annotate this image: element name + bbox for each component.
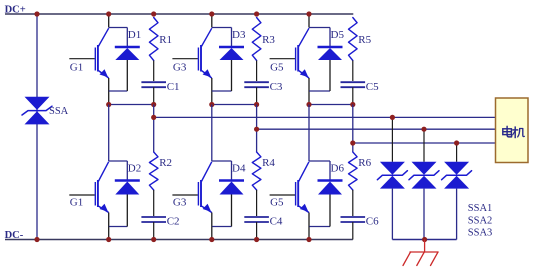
svg-text:D5: D5 (331, 29, 345, 41)
node bottom rail C4 (254, 237, 259, 242)
svg-text:C4: C4 (270, 216, 283, 228)
label D3 (232, 29, 246, 41)
label motor 电机 (503, 126, 525, 138)
label D1 (128, 29, 141, 41)
node top rail leg 1 (106, 11, 111, 16)
svg-text:C6: C6 (366, 216, 379, 228)
wire leg 3 mid vertical (308, 105, 310, 162)
diode D3 (219, 47, 244, 60)
wire collector G1 top (109, 14, 128, 47)
diode D2 (115, 181, 140, 195)
node top rail R3 (254, 11, 259, 16)
capacitor C1 (141, 82, 166, 104)
label C2 (167, 216, 180, 228)
label D2 (128, 163, 141, 175)
label C1 (167, 81, 180, 93)
svg-text:SSA3: SSA3 (468, 228, 493, 239)
wire SSA branch vertical (36, 14, 38, 240)
node phase 3 at IGBT (306, 102, 311, 107)
TVS suppressor SSA2 (409, 162, 439, 189)
transistor IGBT G1 top (69, 28, 108, 78)
svg-text:C5: C5 (366, 81, 379, 93)
wire phase W to motor (353, 142, 496, 144)
wire emitter G3 bottom (212, 195, 232, 240)
svg-text:SSA1: SSA1 (468, 203, 493, 214)
label C4 (270, 216, 283, 228)
wire SSA2 upper lead (423, 129, 425, 162)
label C5 (366, 81, 379, 93)
wire leg 1 mid vertical (108, 105, 110, 162)
svg-text:G1: G1 (70, 196, 83, 208)
node top rail R1 (151, 11, 156, 16)
wire collector G5 bottom (309, 161, 330, 181)
svg-text:SSA2: SSA2 (468, 215, 493, 226)
node bottom rail C2 (151, 237, 156, 242)
label C6 (366, 216, 379, 228)
diode D1 (115, 47, 140, 60)
svg-text:R5: R5 (358, 34, 371, 46)
wire RC branch 1 vertical (153, 105, 155, 153)
node phase 3 at RC (350, 102, 355, 107)
svg-text:SSA: SSA (49, 106, 69, 117)
resistor R3 (252, 18, 261, 82)
diode D6 (318, 181, 343, 195)
wire emitter G5 bottom (309, 195, 330, 240)
wire collector G5 top (309, 14, 330, 47)
node bottom rail leg 1 (106, 237, 111, 242)
wire phase node 2 connector (212, 104, 257, 106)
svg-text:R3: R3 (262, 34, 275, 46)
label SSA2 (468, 215, 493, 226)
svg-text:G3: G3 (173, 196, 187, 208)
wire SSA1 lower lead (391, 189, 393, 240)
capacitor C3 (244, 82, 269, 104)
wire TVS ground bus (392, 239, 456, 241)
resistor R2 (149, 152, 158, 216)
svg-text:C2: C2 (167, 216, 180, 228)
wire RC branch 2 vertical (256, 105, 258, 153)
svg-text:R6: R6 (358, 157, 371, 169)
transistor IGBT G1 bottom (69, 162, 108, 213)
resistor R1 (149, 18, 158, 82)
node SSA1 tap (390, 115, 395, 120)
label R6 (358, 157, 371, 169)
wire SSA2 lower lead (423, 189, 425, 240)
diode D5 (318, 47, 343, 60)
node SSA2 tap (421, 127, 426, 132)
node phase 2 at IGBT (209, 102, 214, 107)
node phase 1 at IGBT (106, 102, 111, 107)
node phase 2 at RC (254, 102, 259, 107)
resistor R4 (252, 152, 261, 216)
node top rail leg 2 (209, 11, 214, 16)
TVS suppressor SSA3 (442, 162, 472, 189)
svg-text:R1: R1 (159, 34, 172, 46)
wire SSA1 upper lead (391, 117, 393, 161)
label R3 (262, 34, 275, 46)
wire emitter G1 top (109, 60, 128, 105)
node phase V start (254, 127, 259, 132)
transistor IGBT G5 bottom (270, 162, 309, 213)
label R1 (159, 34, 172, 46)
label D4 (232, 163, 246, 175)
resistor R6 (349, 152, 358, 216)
transistor IGBT G5 top (270, 28, 309, 78)
svg-text:D3: D3 (232, 29, 246, 41)
label SSA (49, 106, 69, 117)
motor block 电机 box (496, 98, 529, 163)
wire RC branch 3 vertical (352, 105, 354, 153)
label D5 (331, 29, 345, 41)
svg-text:DC+: DC+ (5, 5, 26, 16)
label G3 top (173, 61, 187, 73)
label G5 bottom (270, 196, 284, 208)
node bottom rail leg 3 (306, 237, 311, 242)
capacitor C4 (244, 217, 269, 240)
node top rail SSA (34, 11, 39, 16)
label G1 bottom (70, 196, 83, 208)
label R5 (358, 34, 371, 46)
svg-text:R2: R2 (159, 157, 172, 169)
wire collector G1 bottom (109, 161, 128, 181)
node phase 1 at RC (151, 102, 156, 107)
wire DC- bottom rail (5, 239, 353, 241)
label C3 (270, 81, 283, 93)
diode D4 (219, 181, 244, 195)
wire SSA3 lower lead (456, 189, 458, 240)
wire phase U to motor (154, 116, 496, 118)
svg-text:D6: D6 (331, 163, 345, 175)
label G5 top (270, 61, 284, 73)
node top rail leg 3 (306, 11, 311, 16)
wire leg 2 mid vertical (211, 105, 213, 162)
svg-text:DC-: DC- (5, 230, 24, 241)
svg-text:G3: G3 (173, 61, 187, 73)
svg-text:G5: G5 (270, 61, 284, 73)
node SSA3 tap (454, 140, 459, 145)
label DC+ (5, 5, 26, 16)
capacitor C2 (141, 217, 166, 240)
wire phase V to motor (257, 128, 496, 130)
transistor IGBT G3 top (172, 28, 211, 78)
svg-text:G1: G1 (70, 61, 83, 73)
wire emitter G5 top (309, 60, 330, 105)
svg-text:C1: C1 (167, 81, 180, 93)
label D6 (331, 163, 345, 175)
svg-text:D1: D1 (128, 29, 141, 41)
wire DC+ top rail (5, 13, 353, 15)
svg-text:C3: C3 (270, 81, 283, 93)
label DC- (5, 230, 24, 241)
label G1 top (70, 61, 83, 73)
svg-text:R4: R4 (262, 157, 275, 169)
ground earth symbol (403, 240, 438, 266)
svg-text:D2: D2 (128, 163, 141, 175)
label R4 (262, 157, 275, 169)
label SSA3 (468, 228, 493, 239)
capacitor C5 (341, 82, 366, 104)
TVS suppressor SSA1 (377, 162, 407, 189)
wire collector G3 bottom (212, 161, 232, 181)
label G3 bottom (173, 196, 187, 208)
transistor IGBT G3 bottom (172, 162, 211, 213)
capacitor C6 (341, 217, 366, 240)
wire emitter G3 top (212, 60, 232, 105)
svg-text:G5: G5 (270, 196, 284, 208)
TVS suppressor SSA (22, 97, 52, 125)
wire phase node 3 connector (309, 104, 353, 106)
label R2 (159, 157, 172, 169)
wire phase node 1 connector (109, 104, 154, 106)
node ground junction (422, 237, 427, 242)
node phase U start (151, 115, 156, 120)
wire SSA3 upper lead (456, 143, 458, 162)
resistor R5 (349, 18, 358, 82)
wire collector G3 top (212, 14, 232, 47)
svg-text:D4: D4 (232, 163, 246, 175)
node bottom rail leg 2 (209, 237, 214, 242)
node phase W start (350, 140, 355, 145)
label SSA1 (468, 203, 493, 214)
node bottom rail SSA (34, 237, 39, 242)
wire emitter G1 bottom (109, 195, 128, 240)
